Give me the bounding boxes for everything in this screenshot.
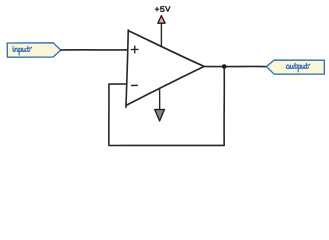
wire: input flag to op-amp non-inverting input xyxy=(61,49,128,51)
wire: op-amp negative supply pin to ground xyxy=(159,89,161,111)
net flag "input" xyxy=(7,43,61,57)
output label xyxy=(286,63,309,72)
net flag "output" xyxy=(266,60,324,74)
wire: op-amp output to output flag xyxy=(204,65,266,67)
wire: feedback from output node to inverting input xyxy=(109,67,225,146)
pin label + (non-inverting input) xyxy=(131,46,138,53)
op-amp U1 body xyxy=(126,30,204,107)
power net label +5V xyxy=(155,7,170,12)
power flag +5V (arrow symbol) xyxy=(158,16,165,24)
junction: output node xyxy=(222,64,227,69)
pin label - (inverting input) xyxy=(132,84,138,86)
ground (arrow style) xyxy=(155,110,165,122)
input label xyxy=(13,46,32,55)
wire: +5V flag to op-amp positive supply pin xyxy=(160,23,162,46)
